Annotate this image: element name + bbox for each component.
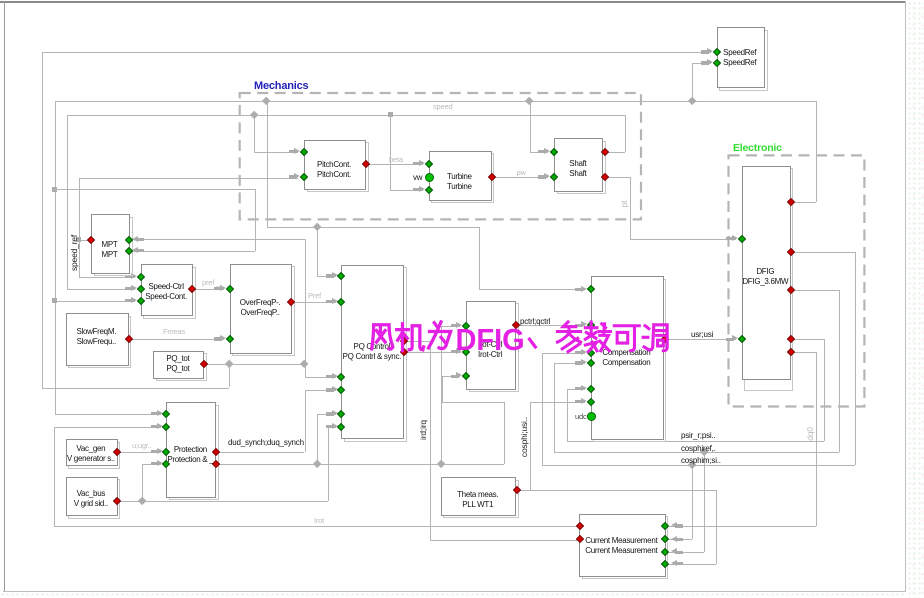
arrow into Irot in1 [451,324,459,327]
port Shaft out2 [601,172,609,180]
node junction vacbus [137,497,146,506]
port DFIG out1 [787,198,795,206]
arrow into Compensation in2 [575,324,583,327]
label Mechanics [254,80,308,92]
port Protection in1 [162,410,170,418]
port Irot out [512,321,520,329]
wire net dudsynch riser [305,390,306,452]
node junction speed A [262,97,271,106]
arrow into DFIG in1 [726,237,734,240]
wire net theta to CM in4 [669,564,716,565]
wire net cosphiref riser [554,363,555,452]
port Vac_gen out [113,447,121,455]
wire net mptin2 to MPT in2 [129,251,255,252]
port PLL out [512,485,520,493]
port Compensation in4 [587,359,595,367]
wire net cosphim branch to CM in2 [692,465,693,539]
wire net pt to DFIG in1 [630,239,736,240]
arrow into CM in2 [675,538,683,541]
port Irot in1 [462,322,470,330]
wire net dudsynch from Protection out1 [216,452,305,453]
wire net speed branch to Shaft in1 [530,101,531,151]
wire net prot2 riser to PQ in5 [317,414,318,464]
block SpeedRef [719,30,768,91]
wire net speed from DFIG out1 [791,202,816,203]
wire net pqtot left drop [42,52,43,388]
wire net Pref OverFreqP out to PQ in2 [291,302,336,303]
wire net cosphim to CM in2 [669,539,692,540]
wire net speed drop to Compensation in1 [479,227,480,290]
node junction genspeed A [250,110,259,119]
port PQ out1 [399,336,407,344]
arrow into Turbine in1 [413,162,421,165]
wire net cosphiref to CM in3 [669,552,704,553]
port MPT in1 [124,235,132,243]
wire net irotmeas left riser [54,427,55,526]
block PitchCont [307,142,369,192]
port SlowFreqM out [124,335,132,343]
wire net prot2 riser right [504,402,505,464]
wire net turbin3 to Turbine in3 [390,190,423,191]
arrow into CM in3 [675,551,683,554]
wire net speedref to SpeedCtrl in1 [79,277,135,278]
port Protection in4 [162,459,170,467]
label dq0 (rotated) [805,374,815,494]
arrow into PQ in6 [326,425,334,428]
port PQ in4 [337,386,345,394]
block Protection [169,405,219,501]
wire net vacbus riser to PQ in6 [328,427,329,502]
wire net irdirq column [430,341,431,540]
wire net vacbus main run [117,501,328,502]
arrow into PitchCont in2 [289,175,297,178]
arrow into PitchCont in1 [289,150,297,153]
port Turbine out [488,173,496,181]
wire net genspeed from Shaft out1 [605,152,625,153]
wire net genspeed main run [67,115,626,116]
port DFIG out3 [787,286,795,294]
port CM out1 [576,522,584,530]
wire net speedref from MPT out [79,240,91,241]
wire net genspeed to SpeedCtrl in2 [67,289,135,290]
wire net speed left drop x54.5 [55,101,56,414]
wire net prot2 main run [216,464,505,465]
wire net uugr Vac_gen out to Protection in3 [117,452,161,453]
label Fmeas [163,327,185,336]
wire net pqtot to PQ Control in3 [305,377,336,378]
arrow into Irot in3 [451,375,459,378]
page right border [905,1,906,591]
block PQ_tot [156,353,207,381]
port MPT in2 [124,246,132,254]
wire net cosphiref drop [839,290,840,452]
wire net cosphim from DFIG out2 [791,252,855,253]
arrow into Compensation in3 [575,351,583,354]
wire net pt from Shaft out2 [605,177,629,178]
wire net speed main run [55,101,817,102]
port Protection in3 [162,447,170,455]
label cosphi;usi [519,377,529,497]
port Protection in2 [162,422,170,430]
arrow into PQ in2 [326,300,334,303]
svg-text:DFIG: DFIG [455,322,524,357]
wire net speed to SpeedRef in2 [692,63,711,64]
wire net cosphim to Compensation in3 [542,353,585,354]
wire net turbin3 drop [390,115,391,190]
wire net pw Turbine out to Shaft in2 [492,177,548,178]
port PQ in2 [337,297,345,305]
port Compensation in1 [587,285,595,293]
port MPT out [87,235,95,243]
port Protection out1 [212,447,220,455]
wire net prot2 upper jog [442,402,505,403]
port DFIG in1 [737,235,745,243]
port DFIG out5 [787,348,795,356]
wire net irotor from DFIG out5 [791,352,816,353]
wire net irotmeas bottom run [54,526,581,527]
port Vac_bus out [113,497,121,505]
port Shaft in2 [550,173,558,181]
wire net cosphim run [542,465,855,466]
arrow into DFIG in2 [726,338,734,341]
node junction speed B [525,97,534,106]
wire net pqtot to MPT in1 [129,239,305,240]
arrow into OverFreqP in2 [214,337,222,340]
label pt (rotated) [619,144,629,264]
port SpeedCtrl in1 [136,272,144,280]
port OverFreqP in1 [225,285,233,293]
wire net genspeed branch to PitchCont in1 [254,115,255,152]
wire net pt drop [630,177,631,239]
arrow into Protection in1 [151,412,159,415]
port Turbine vw [425,173,434,182]
port SpeedCtrl in3 [136,296,144,304]
port SpeedCtrl in2 [136,285,144,293]
wire net genspeed left drop [67,115,68,289]
port PitchCont in2 [300,173,308,181]
port Protection out2 [212,459,220,467]
wire net speed drop to PQ in1 [317,227,318,276]
block DFIG [744,168,793,391]
port PQ in5 [337,410,345,418]
wire net pqtot riser to MPT in1 level [305,239,306,377]
block Turbine [431,153,494,203]
arrow into Compensation in1 [575,288,583,291]
wire net pref SpeedCtrl out to OverFreqP in1 [192,289,225,290]
label vw [413,173,422,182]
wire net cosphiref run [554,452,838,453]
node junction speed C [688,97,697,106]
port Irot in3 [462,372,470,380]
wire net prot2 to Irot in1 [441,326,461,327]
node junction prot2 B [436,460,445,469]
annotation 风机为DFIG、参数可调 (magenta headline) [364,319,672,358]
block Speed-Ctrl [143,267,196,319]
port Shaft in1 [550,147,558,155]
wire net prot2 drop to Irot in3 level [442,376,443,402]
wire net pqtot from PQ_tot output [204,364,305,365]
wire net psir drop [824,339,825,441]
wire net theta PLL out run [517,490,716,491]
block Current Measurement [582,516,669,579]
block MPT [94,217,133,277]
block Shaft [557,141,606,194]
page top border [0,1,905,3]
block PLL [443,480,519,519]
node junction speedref [76,237,81,242]
wire net theta to Compensation in6 [530,402,585,403]
arrow into PQ in4 [326,388,334,391]
port PitchCont out [362,160,370,168]
port PitchCont in1 [300,147,308,155]
arrow into OverFreqP in1 [214,287,222,290]
port OverFreqP out [287,297,295,305]
block OverFreqP [232,266,295,356]
wire net pq out2 to Irot in2 [404,352,461,353]
wire net vacbus riser to Protection in4 [142,464,143,502]
label udc [575,412,587,421]
node junction prot2 A [312,460,321,469]
label Irot [314,516,324,525]
node junction cosphiref [700,448,709,457]
port CM in3 [661,548,669,556]
block SlowFreqM [68,316,131,368]
wire net speed to SpeedCtrl in3 [55,301,136,302]
wire net irotor drop [816,352,817,526]
node junction speed F [52,187,57,192]
wire net speed to Compensation in1 [479,289,585,290]
wire net vacbus to Protection in4 [142,464,161,465]
port CM in1 [661,522,669,530]
arrow into PQ in1 [326,274,334,277]
wire net speed to Protection in1 [55,414,162,415]
arrow into Protection in4 [151,462,159,465]
wire net mptin2 upper run [55,189,256,190]
block Vac_bus [68,479,120,518]
wire net theta riser to Compensation in6 [530,402,531,490]
wire net beta PitchCont out to Turbine in1 [366,164,423,165]
port CM in4 [661,559,669,567]
node junction genspeed B [388,112,393,117]
node junction speed D [312,222,321,231]
arrow into Shaft in1 [538,150,546,153]
port SpeedRef in2 [712,59,720,67]
label u;ugr [132,441,151,450]
arrow into Protection in3 [151,450,159,453]
arrow into Turbine in3 [413,188,421,191]
canvas grid texture bottom [0,592,906,598]
port Turbine in1 [424,160,432,168]
block Vac_gen [68,442,120,469]
block Compensation [593,279,666,443]
port CM out2 [576,535,584,543]
wire net prot2 to Irot in3 [442,376,461,377]
arrow into Shaft in2 [538,175,546,178]
port PQ out2 [399,347,407,355]
wire net irotor to CM in1 [669,526,816,527]
arrow into Compensation in5 [575,387,583,390]
wire net prot2 riser to Irot in1 [441,326,442,464]
arrow into SpeedRef in1 [701,50,709,53]
port PQ in6 [337,422,345,430]
port DFIG in2 [737,335,745,343]
group box Mechanics [240,93,641,219]
port SpeedRef in1 [712,48,720,56]
wire net psir riser [567,389,568,441]
label pctrl;qctrl [520,317,550,326]
label pw [517,168,526,177]
wire net vacbus to PQ in6 [328,427,336,428]
label Electronic [733,142,782,154]
wire net cosphim riser [542,353,543,466]
wire net mptin2 drop [255,189,256,251]
wire net cosphiref from DFIG out3 [791,290,839,291]
node junction pqtot B [300,360,309,369]
port PQ in3 [337,372,345,380]
port Turbine in3 [424,185,432,193]
wire net speed to Shaft in1 [530,152,548,153]
wire net pctrl Irot out to Compensation in2 [516,325,585,326]
block Irot-Ctrl [469,303,519,392]
port CM in2 [661,535,669,543]
arrow into CM in1 [675,524,683,527]
page bottom border [3,591,906,592]
port Compensation out [660,335,668,343]
wire net genspeed from Shaft out1 riser [625,115,626,152]
port Compensation in2 [587,321,595,329]
wire net speed to PQ Control in1 [317,276,336,277]
port Compensation in6 [587,397,595,405]
arrow into Compensation in4 [575,361,583,364]
node junction speed E [52,298,57,303]
arrow into PQ in3 [326,375,334,378]
port Compensation udc [587,412,596,421]
label Pref [308,291,321,300]
wire net irdirq from PQ out1 [404,341,430,342]
wire net genspeed to PitchCont in1 [254,152,298,153]
port OverFreqP in2 [225,335,233,343]
arrow into Irot in2 [451,350,459,353]
label dud_synch [228,438,304,447]
canvas grid texture right [906,0,924,598]
port PQ in1 [337,272,345,280]
arrow into PQ in5 [326,412,334,415]
arrow into SpeedRef in2 [701,61,709,64]
label speed_ref [69,193,79,313]
label usr;usi [691,330,713,339]
port PQ_tot out [199,360,207,368]
port Compensation in5 [587,384,595,392]
arrow into CM in4 [675,562,683,565]
label beta [389,155,403,164]
arrow into SpeedCtrl in3 [125,299,133,302]
arrow into Protection in2 [151,425,159,428]
wire net speed branch at x266.5 [267,101,268,227]
wire net speed lower run [267,227,479,228]
port DFIG out2 [787,247,795,255]
port Shaft out1 [601,147,609,155]
label pref [202,278,222,287]
wire net dudsynch to PQ in4 [305,390,337,391]
wire net theta drop to CM in4 [716,490,717,564]
arrow into SpeedCtrl in2 [125,287,133,290]
wire net speedref to PitchCont in2 [79,178,299,179]
wire net usrusi Compensation out to DFIG in2 [665,339,737,340]
port Compensation in3 [587,349,595,357]
node junction cosphim [688,461,697,470]
arrow into MPT in2 [136,249,144,252]
label cosphim [681,456,721,465]
wire net psir to Compensation in5 [567,389,585,390]
wire net speed riser right [816,101,817,202]
label psir_r [681,431,716,440]
wire net psir from DFIG out4 [791,339,824,340]
node junction pqtot A [224,360,233,369]
arrow into MPT in1 [136,238,144,241]
port SpeedCtrl out [187,285,195,293]
wire net prot2 to PQ in5 [317,414,336,415]
wire net cosphiref to Compensation in4 [554,363,585,364]
wire net pqtot bottom run [42,388,229,389]
wire net speedref spine [79,178,80,277]
label speed [433,102,452,111]
port DFIG out4 [787,335,795,343]
arrow into SpeedCtrl in1 [125,275,133,278]
port Irot in2 [462,347,470,355]
wire net irotmeas to Protection in2 [54,427,162,428]
wire net psir run [567,441,824,442]
wire net pqtot to SpeedRef in1, top run [42,52,711,53]
group box Electronic [729,155,865,406]
wire net irdirq bottom to CM [430,540,580,541]
arrow into Compensation in6 [575,400,583,403]
wire net Fmeas SlowFreqM out to OverFreqP in2 [129,339,224,340]
wire net pqtot riser at x228.7 [229,364,230,387]
block PQ Control [344,267,407,442]
label ird;irq [418,370,428,490]
wire net speed branch to SpeedRef in2 [692,63,693,101]
page left border [4,1,5,591]
wire net cosphiref branch to CM in3 [704,452,705,552]
label cosphiref [681,444,716,453]
wire net cosphim drop [855,252,856,466]
